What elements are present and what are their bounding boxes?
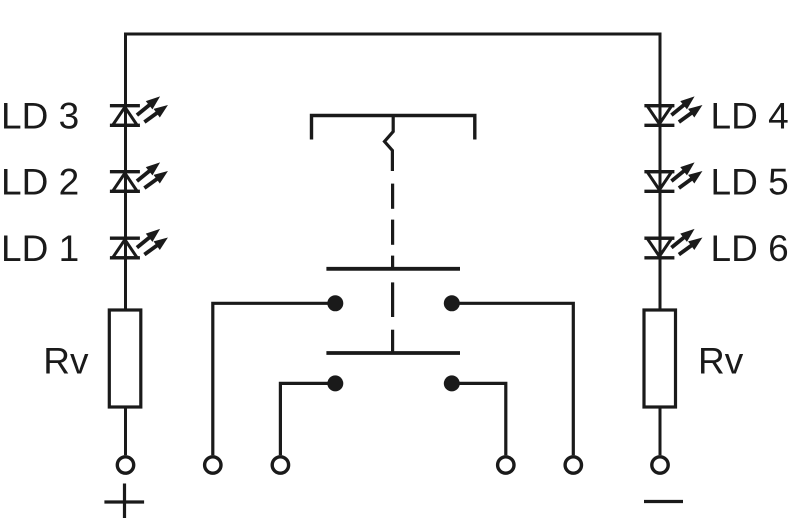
svg-text:LD 1: LD 1 [1, 228, 79, 269]
svg-text:Rv: Rv [698, 341, 744, 382]
svg-text:LD 5: LD 5 [711, 161, 789, 202]
svg-text:Rv: Rv [43, 341, 89, 382]
svg-text:LD 3: LD 3 [1, 95, 79, 136]
svg-text:LD 4: LD 4 [711, 95, 789, 136]
svg-text:LD 2: LD 2 [1, 161, 79, 202]
svg-text:LD 6: LD 6 [711, 228, 789, 269]
